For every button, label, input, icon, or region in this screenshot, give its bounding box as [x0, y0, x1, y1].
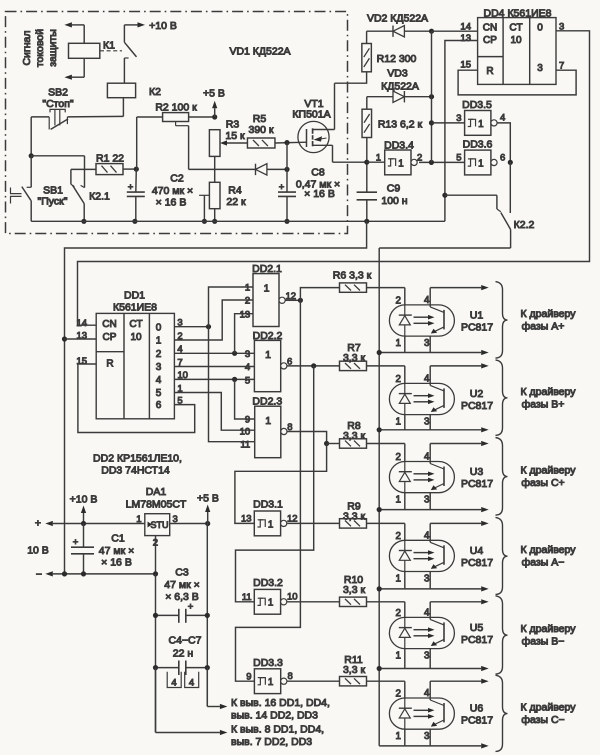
relay coil K1 [69, 43, 100, 58]
output arrows U6 [430, 680, 481, 682]
svg-text:470 мк ×: 470 мк × [152, 185, 193, 197]
svg-text:15: 15 [460, 60, 471, 71]
resistor R12 300 [362, 44, 372, 72]
wire DD4 reset loop [458, 70, 576, 95]
svg-text:10: 10 [510, 35, 522, 46]
node [364, 219, 369, 224]
svg-text:3: 3 [156, 362, 162, 373]
label Сигнал токовой защиты (rotated) [21, 29, 59, 67]
wire to DD2.1 pin13 [235, 314, 253, 354]
svg-text:4: 4 [171, 678, 176, 689]
svg-text:R1 22: R1 22 [96, 153, 124, 165]
node [153, 613, 158, 618]
wire DD4 pin13 [445, 41, 478, 222]
svg-text:C4−C7: C4−C7 [169, 635, 202, 647]
output arrows U2 [430, 365, 481, 367]
svg-text:11: 11 [240, 439, 250, 450]
svg-text:1: 1 [264, 283, 270, 295]
node [81, 521, 86, 526]
node [298, 298, 303, 303]
+10 V arrow up [83, 513, 85, 524]
svg-text:+: + [188, 602, 194, 613]
svg-text:CP: CP [103, 332, 117, 343]
svg-text:3: 3 [537, 63, 543, 74]
arrow inside VT1 [314, 136, 323, 141]
svg-text:9: 9 [246, 671, 251, 682]
svg-text:47 мк ×: 47 мк × [164, 579, 199, 591]
svg-text:R4: R4 [228, 185, 242, 197]
svg-text:К561ИЕ8: К561ИЕ8 [113, 302, 157, 314]
svg-text:0: 0 [156, 322, 162, 333]
optocoupler U6 PC817 [389, 698, 454, 729]
svg-text:SB2: SB2 [48, 87, 68, 99]
capacitor C9 100n [357, 191, 377, 193]
brace U4 [496, 517, 508, 594]
tap of R4 [199, 194, 209, 196]
node [212, 114, 217, 119]
svg-text:4: 4 [189, 678, 194, 689]
svg-text:PC817: PC817 [461, 400, 493, 412]
svg-text:STU: STU [151, 520, 169, 530]
node [153, 665, 158, 670]
wire [366, 31, 368, 43]
relay coil K2 [107, 83, 135, 98]
svg-text:+10 В: +10 В [70, 494, 98, 506]
wire to DD2.1 pin1 and DD2.3 pin11 [209, 287, 255, 442]
node [62, 336, 67, 341]
svg-text:DA1: DA1 [146, 486, 167, 498]
svg-text:"Стоп": "Стоп" [42, 98, 74, 110]
svg-text:5: 5 [456, 153, 461, 164]
svg-text:4: 4 [500, 113, 505, 124]
node [202, 219, 207, 224]
wire DD4 pin14 [432, 30, 478, 32]
svg-text:DD3.2: DD3.2 [253, 577, 283, 589]
svg-text:U1: U1 [470, 309, 484, 321]
svg-text:13: 13 [240, 309, 251, 320]
optocoupler U5 PC817 [389, 617, 454, 648]
svg-text:4: 4 [424, 530, 430, 541]
diode VD1 [256, 164, 267, 175]
node [29, 153, 34, 158]
svg-text:11: 11 [242, 592, 252, 603]
svg-text:U5: U5 [470, 622, 484, 634]
wire [214, 209, 216, 222]
svg-text:+: + [128, 182, 134, 193]
svg-text:выв. 14 DD2, DD3: выв. 14 DD2, DD3 [231, 710, 318, 722]
wire DD1 out0 [174, 326, 208, 328]
svg-text:C2: C2 [170, 173, 184, 185]
svg-text:390 к: 390 к [248, 124, 273, 136]
wire DD3.3 output to R11 [287, 680, 339, 682]
svg-text:К драйверу: К драйверу [521, 308, 577, 320]
resistor R4 22k (trimmer) [209, 182, 220, 208]
svg-text:DD3.3: DD3.3 [253, 657, 283, 669]
svg-text:C1: C1 [111, 533, 125, 545]
svg-text:U6: U6 [470, 703, 484, 715]
svg-text:R2 100 к: R2 100 к [155, 102, 197, 114]
node [429, 94, 434, 99]
wire [83, 25, 85, 43]
brace U3 [496, 438, 508, 516]
svg-text:R: R [106, 359, 113, 370]
svg-text:4: 4 [424, 607, 430, 618]
wire DA1 pin2 [155, 536, 157, 574]
brace U1 [496, 282, 508, 358]
output arrows U5 [430, 601, 481, 603]
svg-text:13: 13 [241, 514, 252, 525]
node [232, 351, 237, 356]
svg-text:3: 3 [424, 495, 430, 506]
svg-text:C8: C8 [311, 167, 325, 179]
svg-text:3,3 к: 3,3 к [343, 430, 366, 442]
svg-text:1: 1 [156, 336, 162, 347]
node [81, 219, 86, 224]
+10 V supply arrow (top) [124, 24, 137, 26]
node [324, 441, 329, 446]
wire from R2 wiper [188, 126, 190, 170]
wire left filter rail [155, 574, 157, 733]
svg-text:9: 9 [245, 415, 250, 426]
svg-text:2: 2 [396, 689, 401, 700]
svg-text:1: 1 [268, 677, 273, 688]
svg-text:К2: К2 [149, 86, 161, 98]
svg-text:токовой: токовой [34, 29, 46, 67]
svg-text:3: 3 [424, 417, 430, 428]
svg-text:15 к: 15 к [225, 130, 245, 142]
svg-text:+: + [35, 518, 41, 530]
svg-text:PC817: PC817 [461, 634, 493, 646]
capacitor C8 0.47u [278, 191, 296, 193]
svg-text:К2.2: К2.2 [514, 219, 535, 231]
svg-text:2: 2 [396, 295, 401, 306]
svg-text:VD1 КД522А: VD1 КД522А [229, 46, 290, 58]
svg-text:2: 2 [396, 452, 401, 463]
svg-text:1: 1 [396, 651, 401, 662]
svg-text:DD2 КР1561ЛЕ10,: DD2 КР1561ЛЕ10, [93, 453, 182, 465]
node [205, 521, 210, 526]
svg-text:3: 3 [245, 349, 250, 360]
arrow common to supply pins [155, 668, 157, 733]
svg-text:× 16 В: × 16 В [156, 197, 187, 209]
svg-text:U3: U3 [470, 466, 484, 478]
capacitor C2 470u [135, 169, 138, 192]
resistor R3 15k (trimmer) [209, 130, 220, 157]
dash-dot enclosure of current-protection unit [6, 12, 348, 234]
rail DD2.3 out down to DD3.1 [235, 444, 327, 524]
wire DD1 out4 [174, 378, 254, 380]
+5 V arrow (top) [214, 108, 216, 117]
wire DD1 out2 [174, 352, 254, 354]
arrow to protection signal (top) [72, 24, 84, 26]
svg-text:1: 1 [136, 514, 141, 525]
svg-text:4: 4 [424, 295, 430, 306]
wire DD3.1 output to R9 [287, 522, 340, 524]
svg-text:CN: CN [483, 23, 497, 34]
svg-text:C9: C9 [387, 183, 401, 195]
wire DD1 out6 reset loop [78, 364, 195, 433]
svg-text:R: R [486, 66, 493, 77]
svg-text:1: 1 [478, 119, 483, 130]
+10 V input arrow [53, 523, 145, 525]
svg-text:6: 6 [500, 152, 505, 163]
svg-text:К2.1: К2.1 [89, 191, 110, 203]
svg-text:47 мк ×: 47 мк × [99, 545, 134, 557]
svg-text:10: 10 [287, 592, 298, 603]
node [153, 571, 158, 576]
svg-text:8: 8 [288, 671, 293, 682]
svg-text:"Пуск": "Пуск" [38, 196, 68, 208]
svg-text:фазы С−: фазы С− [521, 714, 564, 726]
node [284, 140, 289, 145]
optocoupler U3 PC817 [389, 462, 454, 493]
svg-text:DD3.5: DD3.5 [462, 99, 492, 111]
svg-text:14: 14 [76, 318, 87, 329]
svg-text:фазы B+: фазы B+ [522, 398, 565, 410]
svg-text:10 В: 10 В [27, 545, 49, 557]
svg-text:К драйверу: К драйверу [521, 623, 577, 635]
node [132, 219, 137, 224]
wire [366, 138, 368, 193]
wire to R8 [327, 443, 340, 445]
brace U2 [496, 360, 508, 435]
svg-text:3,3 к: 3,3 к [343, 352, 366, 364]
svg-text:+5 В: +5 В [203, 88, 225, 100]
wire DD1 pin13 [65, 338, 97, 340]
svg-text:4: 4 [156, 375, 162, 386]
contact K2.2 [445, 194, 497, 196]
svg-text:2: 2 [396, 531, 401, 542]
wire [30, 117, 32, 156]
svg-text:CT: CT [129, 319, 142, 330]
wire [189, 116, 215, 118]
svg-text:защиты: защиты [47, 29, 59, 67]
diode VD3 [393, 91, 404, 102]
svg-text:2: 2 [396, 608, 401, 619]
svg-text:К драйверу: К драйверу [521, 702, 577, 714]
diode VD2 [393, 26, 404, 37]
optocoupler U4 PC817 [389, 540, 454, 571]
svg-text:+: + [73, 537, 79, 548]
capacitor C1 47u [83, 524, 85, 548]
node [364, 160, 369, 165]
wire to DD2.3 pin9 [235, 379, 255, 419]
svg-text:фазы A−: фазы A− [522, 557, 565, 569]
svg-text:13: 13 [460, 33, 471, 44]
svg-text:PC817: PC817 [461, 478, 493, 490]
svg-text:К выв. 8 DD1, DD4,: К выв. 8 DD1, DD4, [231, 724, 324, 736]
svg-text:1: 1 [268, 519, 273, 530]
optocoupler U2 PC817 [389, 383, 454, 414]
svg-text:1: 1 [245, 283, 250, 294]
svg-text:U2: U2 [470, 388, 484, 400]
svg-text:К драйверу: К драйверу [521, 386, 577, 398]
svg-text:R6 3,3 к: R6 3,3 к [333, 270, 372, 282]
svg-text:DD3.6: DD3.6 [463, 139, 493, 151]
node [377, 350, 382, 355]
wire DD3.5 output [497, 123, 510, 162]
multiplicity brackets 4 4 [167, 672, 181, 688]
resistor R13 6.2k [362, 109, 372, 137]
wire [83, 58, 85, 77]
svg-text:PC817: PC817 [461, 321, 493, 333]
svg-text:PC817: PC817 [461, 557, 493, 569]
svg-text:3: 3 [456, 113, 461, 124]
pushbutton SB1 Пуск [30, 156, 32, 188]
optocoupler U1 PC817 [389, 305, 454, 336]
svg-text:3,3 к: 3,3 к [343, 584, 366, 596]
minus input arrow [53, 573, 156, 575]
svg-text:4: 4 [424, 688, 430, 699]
svg-text:R12 300: R12 300 [377, 53, 417, 65]
node [311, 363, 316, 368]
node [206, 324, 211, 329]
svg-text:КП501А: КП501А [292, 109, 330, 121]
svg-text:5: 5 [156, 388, 162, 399]
wire DD2.2 output to R7 [287, 365, 340, 367]
arrow to protection signal (bottom) [72, 76, 84, 78]
svg-text:3: 3 [424, 731, 430, 742]
svg-text:1: 1 [396, 731, 401, 742]
node [377, 586, 382, 591]
svg-text:3,3 к: 3,3 к [343, 664, 366, 676]
wire DD2.3 output [287, 432, 327, 444]
wire [214, 156, 216, 182]
svg-text:фазы A+: фазы A+ [522, 321, 565, 333]
svg-text:22 н: 22 н [173, 648, 194, 660]
svg-text:VD3: VD3 [387, 68, 408, 80]
svg-text:× 16 В: × 16 В [101, 557, 132, 569]
contact K2.1 [70, 169, 72, 184]
wire [367, 161, 385, 163]
svg-text:−: − [36, 569, 42, 581]
svg-text:4: 4 [245, 362, 250, 373]
svg-text:3: 3 [424, 574, 430, 585]
svg-text:+10 В: +10 В [149, 20, 177, 32]
svg-text:× 6,3 В: × 6,3 В [165, 591, 199, 603]
wire to R6 [300, 288, 339, 301]
output arrows U3 [430, 443, 481, 445]
rail DD2.2 out down to DD3.2 [236, 366, 314, 602]
mechanical link K1 (dashed) [100, 50, 122, 52]
svg-text:DD3 74НСТ14: DD3 74НСТ14 [101, 465, 170, 477]
svg-text:1: 1 [398, 158, 403, 169]
wire VT1 drain [313, 129, 335, 131]
wire DD1 out3 to DD2.2 pin4 [174, 366, 254, 368]
wire DD2.1 output [285, 299, 300, 301]
svg-text:× 16 В: × 16 В [304, 188, 335, 200]
wire [432, 122, 465, 124]
node [377, 427, 382, 432]
arrow R5 to R3 wiper [227, 142, 248, 144]
svg-text:1: 1 [478, 158, 483, 169]
svg-text:PC817: PC817 [461, 715, 493, 727]
wire DD1 out5 to DD2.3 pin10 [174, 393, 254, 431]
svg-text:100 н: 100 н [381, 195, 407, 207]
svg-text:CT: CT [509, 23, 522, 34]
node [232, 377, 237, 382]
wire [275, 141, 307, 144]
wire common to DD1 [65, 221, 367, 574]
svg-text:К драйверу: К драйверу [521, 465, 577, 477]
svg-text:фазы C+: фазы C+ [521, 477, 564, 489]
wire [286, 143, 288, 193]
node [284, 219, 289, 224]
svg-text:3: 3 [424, 651, 430, 662]
svg-text:2: 2 [245, 296, 250, 307]
+5 V arrow [207, 512, 209, 524]
vertical net VD2-VD3-DD3.5-DD3.4 [431, 31, 433, 162]
node [62, 571, 67, 576]
wire R12 to VT1 drain [335, 72, 367, 83]
svg-text:10: 10 [130, 332, 142, 343]
svg-text:1: 1 [265, 349, 271, 361]
node [284, 167, 289, 172]
node [212, 219, 217, 224]
svg-text:4: 4 [424, 373, 430, 384]
arrow +5V to supply pins [207, 706, 220, 708]
svg-text:22 к: 22 к [226, 196, 246, 208]
svg-text:1: 1 [265, 415, 271, 427]
wire right filter rail [206, 524, 208, 707]
svg-text:VD2 КД522А: VD2 КД522А [367, 13, 428, 25]
wire [31, 155, 84, 157]
svg-text:2: 2 [396, 374, 401, 385]
wire DD1 out1 to DD2.1 pin2 [174, 300, 253, 340]
wire DD3.2 output to R10 [287, 601, 339, 603]
svg-text:R3: R3 [226, 119, 240, 131]
output arrows U4 [430, 522, 481, 524]
contact K1 [123, 25, 125, 42]
svg-text:1: 1 [396, 495, 401, 506]
node [429, 160, 434, 165]
svg-text:1: 1 [396, 338, 401, 349]
svg-text:1: 1 [396, 574, 401, 585]
svg-text:4: 4 [424, 452, 430, 463]
svg-text:DD1: DD1 [124, 290, 145, 302]
svg-text:C3: C3 [175, 567, 189, 579]
rail DD2.1 out down to DD3.3 [236, 300, 301, 681]
svg-text:U4: U4 [470, 545, 484, 557]
svg-text:1: 1 [396, 417, 401, 428]
svg-text:CN: CN [102, 319, 116, 330]
svg-text:К1: К1 [103, 40, 115, 52]
svg-text:R13 6,2 к: R13 6,2 к [378, 119, 423, 131]
node [429, 29, 434, 34]
svg-text:К драйверу: К драйверу [521, 544, 577, 556]
svg-text:выв. 7 DD2, DD3: выв. 7 DD2, DD3 [231, 736, 312, 748]
svg-text:DD3.1: DD3.1 [253, 499, 283, 511]
node [429, 120, 434, 125]
svg-text:LM78M05CT: LM78M05CT [126, 499, 187, 511]
node [377, 507, 382, 512]
svg-text:CP: CP [483, 35, 497, 46]
wire [379, 247, 510, 249]
node [442, 193, 447, 198]
minus rail of protection unit [31, 220, 445, 222]
svg-text:фазы B−: фазы B− [522, 636, 565, 648]
svg-text:12: 12 [287, 513, 298, 524]
common rail to optocouplers [378, 248, 380, 746]
node [377, 666, 382, 671]
svg-text:Сигнал: Сигнал [21, 30, 33, 65]
svg-text:5: 5 [245, 375, 250, 386]
wire DA1 out [170, 523, 208, 525]
node [508, 160, 513, 165]
wire VT1 source [313, 144, 333, 146]
svg-text:КД522А: КД522А [381, 81, 419, 93]
wire [122, 98, 124, 117]
